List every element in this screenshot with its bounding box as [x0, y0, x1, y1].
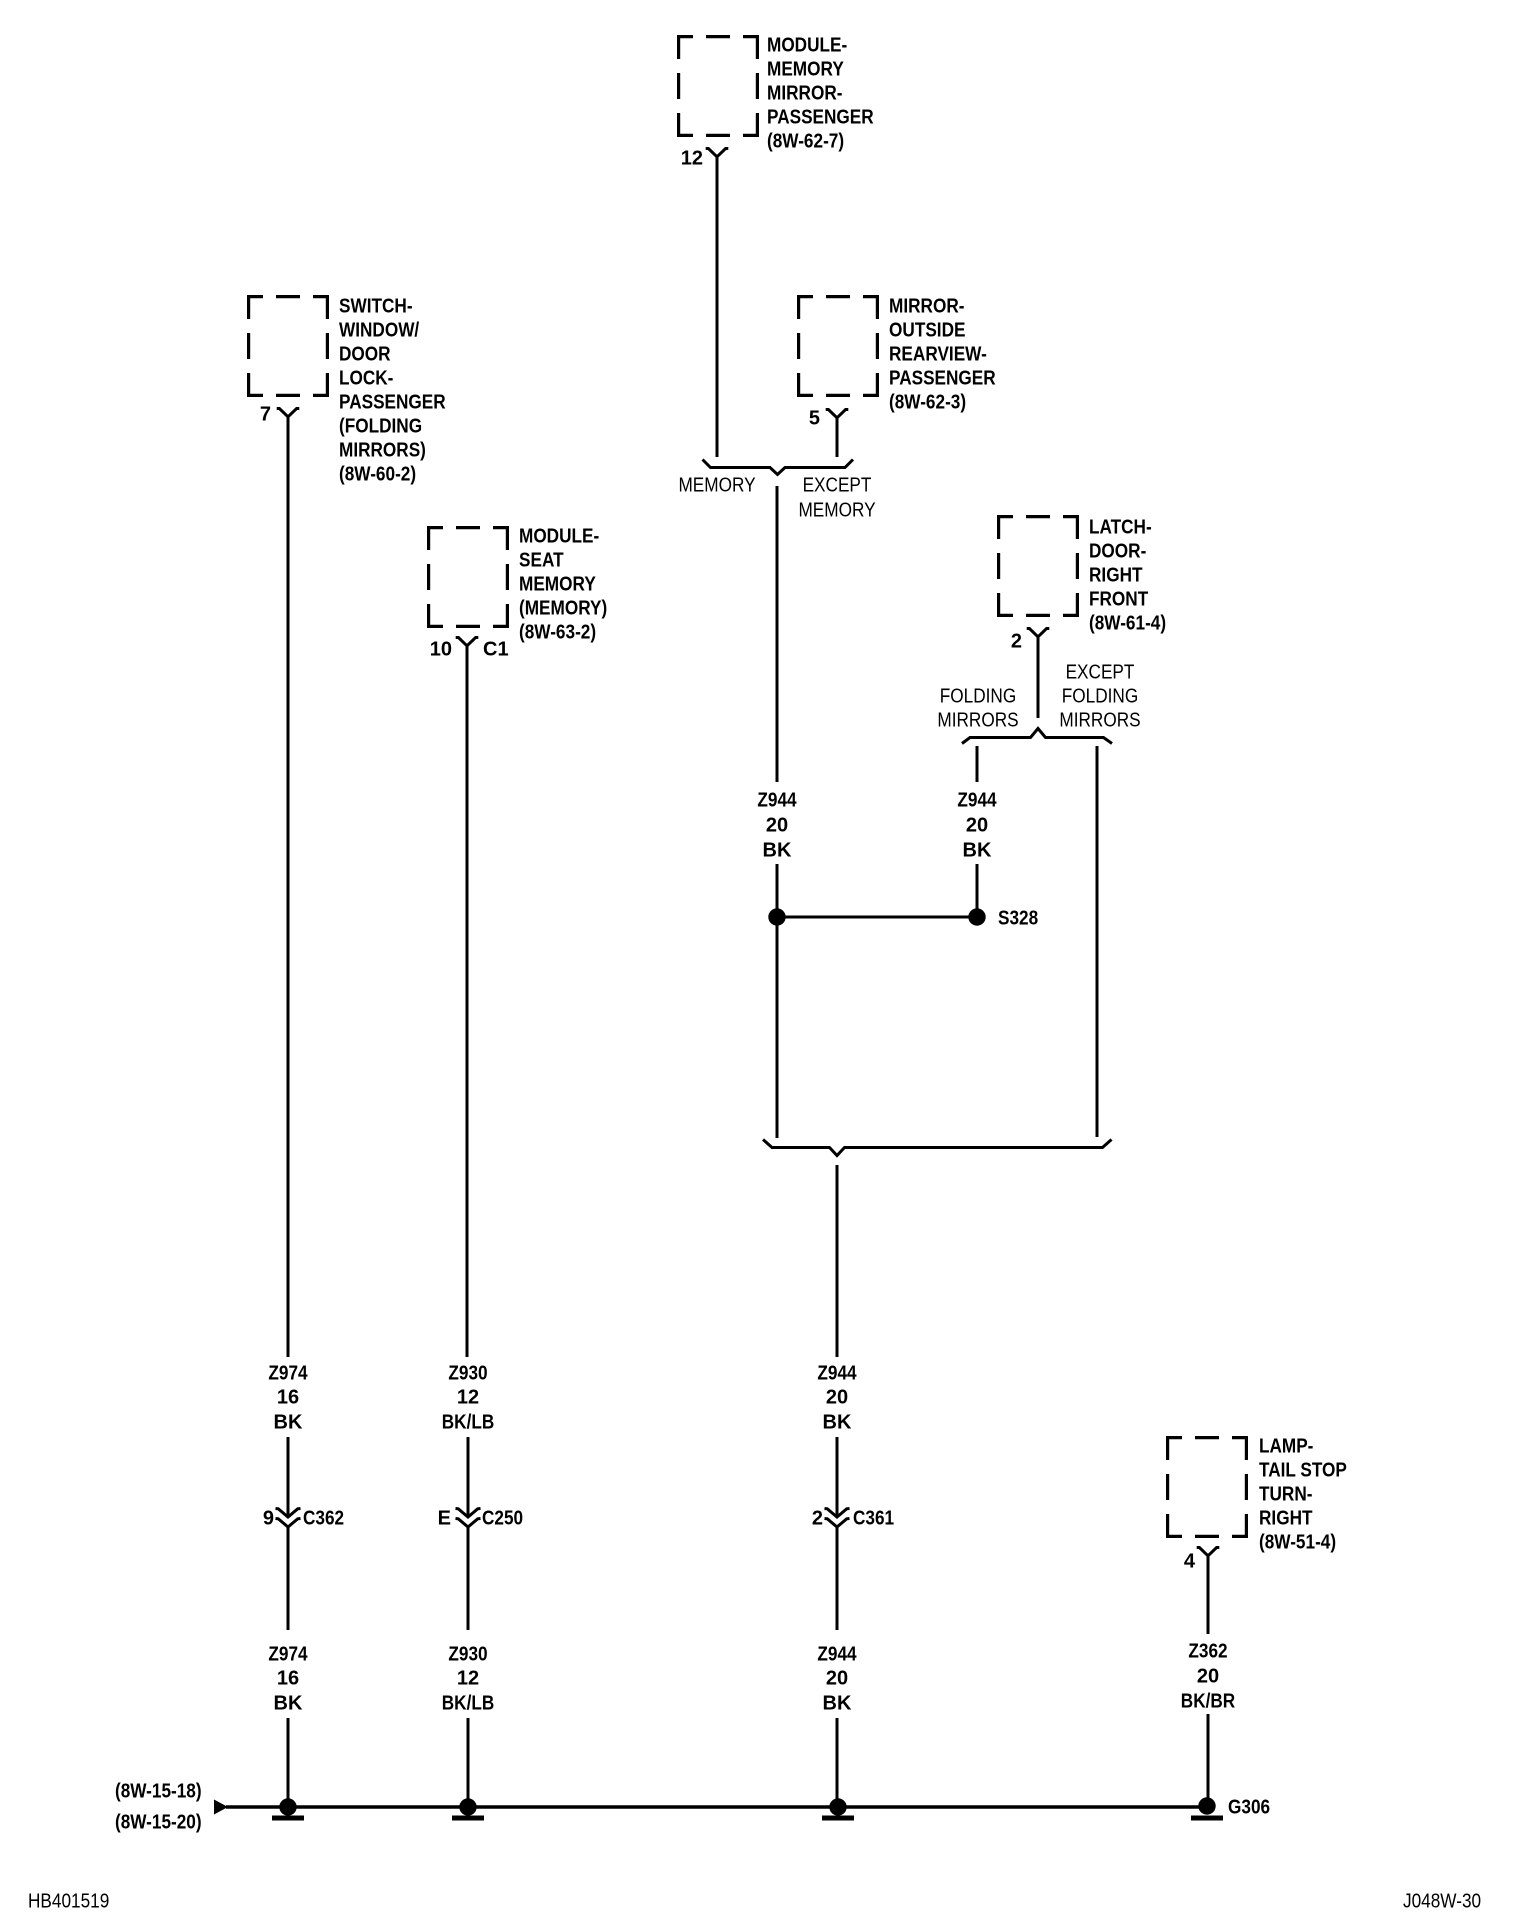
wire segment above C361 — [836, 1437, 839, 1515]
connector C361 pin 2 — [812, 1507, 894, 1529]
svg-text:RIGHT: RIGHT — [1259, 1507, 1313, 1529]
wire label Z930 12 BK/LB upper — [442, 1362, 495, 1433]
switch S1 box: SWITCH-WINDOW/DOOR LOCK-PASSENGER — [247, 295, 329, 397]
wire: M1 pin 5 down to memory brace — [836, 418, 839, 457]
wire Z974: S1 pin 7 down to label gap — [287, 417, 290, 1357]
svg-text:MIRRORS): MIRRORS) — [339, 439, 426, 461]
svg-text:(8W-62-3): (8W-62-3) — [889, 391, 966, 413]
svg-text:C250: C250 — [482, 1507, 523, 1529]
bus arrow — [214, 1800, 228, 1815]
svg-text:7: 7 — [260, 403, 271, 425]
svg-text:BK: BK — [823, 1692, 852, 1714]
wire segment above C250 — [467, 1437, 470, 1515]
wire Z930: U2 pin 10 down to label gap — [466, 646, 469, 1357]
svg-text:EXCEPT: EXCEPT — [1066, 661, 1135, 683]
svg-text:FOLDING: FOLDING — [1062, 685, 1139, 707]
svg-text:12: 12 — [457, 1386, 479, 1408]
svg-text:PASSENGER: PASSENGER — [767, 106, 874, 128]
wire into bus from Z974 — [287, 1718, 290, 1800]
wire Z944: brace output down to splice S328 — [776, 486, 779, 782]
wire: except-folding branch down to lower brace — [1096, 746, 1099, 1137]
svg-text:EXCEPT: EXCEPT — [803, 474, 872, 496]
wire into bus from Z944 — [836, 1718, 839, 1800]
svg-text:Z944: Z944 — [817, 1362, 857, 1384]
mirror M1 label — [889, 295, 996, 413]
svg-text:12: 12 — [457, 1667, 479, 1689]
splice dot right S328 — [968, 907, 1038, 929]
svg-text:DOOR-: DOOR- — [1089, 540, 1146, 562]
svg-text:20: 20 — [826, 1386, 848, 1408]
svg-text:BK/LB: BK/LB — [442, 1411, 495, 1433]
svg-text:WINDOW/: WINDOW/ — [339, 319, 420, 341]
svg-text:J048W-30: J048W-30 — [1403, 1890, 1481, 1912]
svg-text:MEMORY: MEMORY — [678, 474, 755, 496]
wire into bus from Z930 — [467, 1718, 470, 1800]
svg-text:20: 20 — [766, 814, 788, 836]
svg-text:BK: BK — [823, 1411, 852, 1433]
wire label Z944 20 BK (left) — [757, 789, 797, 861]
wire Z944: folding-mirrors branch down to splice S328 — [976, 746, 979, 782]
svg-text:MEMORY: MEMORY — [798, 499, 875, 521]
svg-text:(8W-15-18): (8W-15-18) — [115, 1780, 202, 1802]
svg-text:PASSENGER: PASSENGER — [889, 367, 996, 389]
svg-text:Z974: Z974 — [268, 1362, 308, 1384]
switch S1 label — [339, 295, 446, 485]
svg-text:(8W-60-2): (8W-60-2) — [339, 463, 416, 485]
svg-text:10: 10 — [430, 638, 452, 660]
svg-text:LOCK-: LOCK- — [339, 367, 393, 389]
svg-text:FRONT: FRONT — [1089, 588, 1148, 610]
svg-text:MEMORY: MEMORY — [767, 58, 844, 80]
wire label Z930 12 BK/LB lower — [442, 1643, 495, 1714]
brace: memory vs except-memory merge — [703, 460, 854, 475]
splice dot left — [768, 908, 785, 925]
wire below C250 — [467, 1527, 470, 1630]
svg-text:LATCH-: LATCH- — [1089, 516, 1152, 538]
label EXCEPT MEMORY (variant) — [798, 474, 875, 521]
wire below C361 — [836, 1527, 839, 1630]
svg-text:20: 20 — [1197, 1665, 1219, 1687]
svg-text:DOOR: DOOR — [339, 343, 391, 365]
wire Z362: E1 pin 4 down to label gap — [1207, 1556, 1210, 1634]
svg-text:Z974: Z974 — [268, 1643, 308, 1665]
lamp E1 label — [1259, 1435, 1347, 1553]
svg-text:(8W-62-7): (8W-62-7) — [767, 130, 844, 152]
wire label Z974 16 BK lower — [268, 1643, 308, 1714]
wire segment above C362 — [287, 1437, 290, 1515]
wire Z944 main: brace down to label gap — [836, 1165, 839, 1357]
bus splice + ground at Z944 — [822, 1798, 854, 1820]
pin 2 of L1 — [1011, 629, 1049, 653]
svg-text:BK/BR: BK/BR — [1181, 1690, 1236, 1712]
svg-text:MIRROR-: MIRROR- — [889, 295, 965, 317]
wire label Z944 20 BK upper — [817, 1362, 857, 1433]
svg-text:S328: S328 — [998, 907, 1038, 929]
latch L1 label — [1089, 516, 1166, 634]
wire label Z944 20 BK (right) — [957, 789, 997, 861]
svg-text:C362: C362 — [303, 1507, 344, 1529]
svg-text:Z930: Z930 — [448, 1643, 487, 1665]
wire label Z944 20 BK lower — [817, 1643, 857, 1714]
svg-text:Z362: Z362 — [1188, 1640, 1227, 1662]
svg-text:C361: C361 — [853, 1507, 894, 1529]
svg-text:Z944: Z944 — [957, 789, 997, 811]
svg-text:PASSENGER: PASSENGER — [339, 391, 446, 413]
connector C250 pin E — [438, 1507, 523, 1529]
svg-text:RIGHT: RIGHT — [1089, 564, 1143, 586]
svg-text:Z944: Z944 — [757, 789, 797, 811]
svg-text:MIRRORS: MIRRORS — [1059, 709, 1140, 731]
bus splice + ground at Z930 — [452, 1798, 484, 1820]
svg-text:MODULE-: MODULE- — [767, 34, 847, 56]
svg-text:SWITCH-: SWITCH- — [339, 295, 413, 317]
wire: U1 pin 12 down to memory brace — [716, 157, 719, 457]
svg-text:REARVIEW-: REARVIEW- — [889, 343, 987, 365]
svg-text:Z944: Z944 — [817, 1643, 857, 1665]
mirror M1 box: MIRROR-OUTSIDE REARVIEW-PASSENGER — [797, 295, 879, 397]
pin 10 C1 of U2 — [430, 638, 509, 661]
svg-text:(FOLDING: (FOLDING — [339, 415, 422, 437]
svg-text:MEMORY: MEMORY — [519, 573, 596, 595]
pin 4 of E1 — [1184, 1548, 1219, 1573]
svg-text:MODULE-: MODULE- — [519, 525, 599, 547]
svg-text:SEAT: SEAT — [519, 549, 564, 571]
wire: L1 pin 2 down to folding brace — [1037, 637, 1040, 718]
ground bus wire — [226, 1805, 1207, 1808]
module U2 box: MODULE-SEAT MEMORY — [427, 526, 509, 628]
svg-text:LAMP-: LAMP- — [1259, 1435, 1313, 1457]
wire label Z974 16 BK upper — [268, 1362, 308, 1433]
svg-text:20: 20 — [966, 814, 988, 836]
svg-text:12: 12 — [681, 147, 703, 169]
svg-text:MIRROR-: MIRROR- — [767, 82, 843, 104]
svg-text:Z930: Z930 — [448, 1362, 487, 1384]
wire: S328 down to lower brace — [776, 917, 779, 1138]
module U1 box: MODULE-MEMORY MIRROR-PASSENGER — [677, 35, 759, 137]
svg-text:4: 4 — [1184, 1550, 1196, 1572]
svg-text:TURN-: TURN- — [1259, 1483, 1313, 1505]
brace: merge folding/except-folding to Z944 — [763, 1140, 1112, 1156]
svg-text:(8W-15-20): (8W-15-20) — [115, 1811, 202, 1833]
pin 5 of M1 — [809, 407, 848, 429]
lamp E1 box: LAMP-TAIL STOP TURN-RIGHT — [1166, 1436, 1248, 1538]
wire label Z362 20 BK/BR — [1181, 1640, 1236, 1712]
svg-text:5: 5 — [809, 407, 820, 429]
module U1 label — [767, 34, 874, 152]
svg-text:BK: BK — [963, 839, 992, 861]
wire: Z362 down to ground G306 — [1207, 1714, 1210, 1800]
svg-text:BK: BK — [274, 1692, 303, 1714]
svg-text:TAIL STOP: TAIL STOP — [1259, 1459, 1347, 1481]
svg-text:(MEMORY): (MEMORY) — [519, 597, 607, 619]
bus reference (8W-15-18)/(8W-15-20) — [115, 1780, 202, 1833]
svg-text:C1: C1 — [483, 638, 509, 660]
svg-text:20: 20 — [826, 1667, 848, 1689]
svg-text:BK: BK — [274, 1411, 303, 1433]
label FOLDING MIRRORS (variant) — [937, 685, 1018, 731]
svg-text:(8W-51-4): (8W-51-4) — [1259, 1531, 1336, 1553]
svg-text:(8W-61-4): (8W-61-4) — [1089, 612, 1166, 634]
svg-text:FOLDING: FOLDING — [940, 685, 1017, 707]
svg-text:2: 2 — [812, 1507, 823, 1529]
brace: folding vs except-folding split — [962, 729, 1112, 744]
pin 7 of S1 — [260, 403, 299, 425]
module U2 label — [519, 525, 607, 643]
ground G306 — [1191, 1796, 1270, 1820]
svg-text:16: 16 — [277, 1386, 299, 1408]
svg-text:9: 9 — [263, 1507, 274, 1529]
svg-text:2: 2 — [1011, 630, 1022, 652]
svg-text:16: 16 — [277, 1667, 299, 1689]
svg-text:G306: G306 — [1228, 1796, 1270, 1818]
connector C362 pin 9 — [263, 1507, 344, 1529]
svg-text:OUTSIDE: OUTSIDE — [889, 319, 966, 341]
svg-text:BK/LB: BK/LB — [442, 1692, 495, 1714]
svg-text:MIRRORS: MIRRORS — [937, 709, 1018, 731]
latch L1 box: LATCH-DOOR-RIGHT FRONT — [997, 515, 1079, 617]
svg-text:E: E — [438, 1507, 451, 1529]
svg-text:HB401519: HB401519 — [28, 1890, 109, 1912]
pin 12 of U1 — [681, 147, 729, 169]
wire below C362 — [287, 1527, 290, 1630]
label EXCEPT FOLDING MIRRORS (variant) — [1059, 661, 1140, 731]
splice S328 horizontal link — [777, 916, 977, 919]
svg-text:BK: BK — [763, 839, 792, 861]
svg-text:(8W-63-2): (8W-63-2) — [519, 621, 596, 643]
bus splice + ground at Z974 — [272, 1798, 304, 1820]
